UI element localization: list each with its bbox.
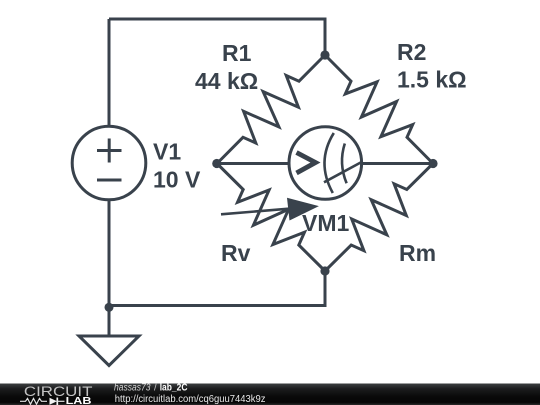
node ground junction [105,303,114,312]
footer logo diode [50,398,65,405]
wire left (V1 top) [108,19,111,127]
wire top [109,19,325,55]
node right [428,159,437,168]
resistor R2 [325,55,433,164]
svg-text:R1: R1 [222,40,252,66]
potentiometer arrow Rv [221,198,319,221]
svg-text:V1: V1 [153,139,181,165]
svg-text:Rv: Rv [221,240,251,266]
wire bottom [109,271,325,306]
svg-text:1.5 kΩ: 1.5 kΩ [397,67,467,93]
svg-text:VM1: VM1 [302,210,350,236]
voltmeter VM1 [289,127,362,200]
resistor Rm [325,164,433,272]
footer logo zigzag resistor [20,398,47,404]
wire V1 bottom [108,200,111,306]
voltage source V1 [72,126,146,200]
svg-text:10 V: 10 V [153,167,201,193]
svg-text:hassas73: hassas73 [114,383,151,394]
svg-text:R2: R2 [397,39,426,65]
svg-text:44 kΩ: 44 kΩ [195,68,258,94]
wire voltmeter right [361,162,434,165]
wire ground stem [108,306,111,337]
svg-text:http://circuitlab.com/cq6guu74: http://circuitlab.com/cq6guu7443k9z [115,394,266,405]
node top [320,50,329,59]
footer bar [0,384,540,405]
svg-text:Rm: Rm [399,240,436,266]
node bottom [320,266,329,275]
node left [212,159,221,168]
ground [79,336,139,366]
svg-text:lab_2C: lab_2C [160,383,188,394]
wire voltmeter left [217,162,290,165]
svg-text:LAB: LAB [66,396,92,405]
resistor Rv [217,164,325,272]
svg-text:/: / [154,383,157,394]
resistor R1 [217,55,325,164]
